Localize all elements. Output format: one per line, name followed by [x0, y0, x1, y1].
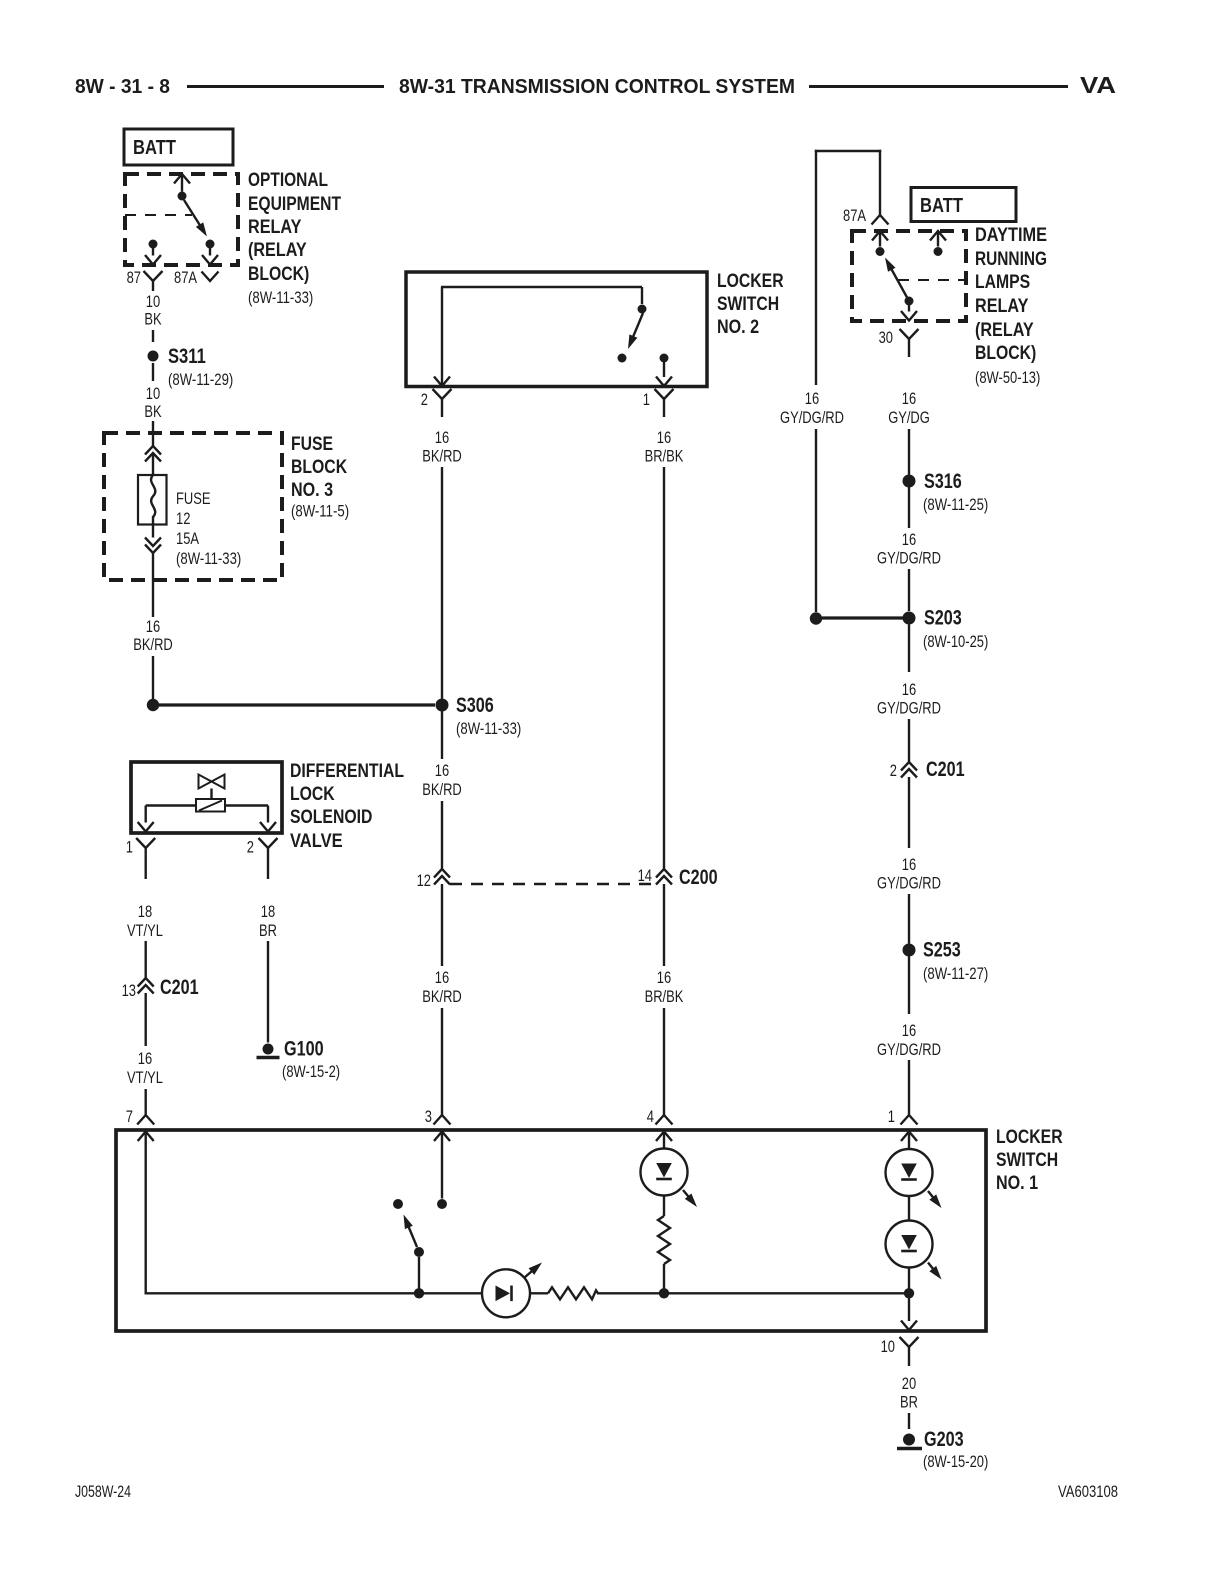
wire pin1 to C201 pin13	[144, 941, 146, 978]
svg-text:12: 12	[176, 509, 190, 528]
locker1 pin4 internal arrow	[656, 1132, 672, 1149]
wire to locker1 pin4	[663, 1008, 665, 1115]
svg-text:(8W-15-20): (8W-15-20)	[923, 1452, 988, 1471]
header rule left	[187, 85, 384, 88]
svg-text:C201: C201	[926, 758, 965, 781]
locker1 bus end junction dot	[904, 1288, 914, 1298]
fuse F12 value label	[176, 489, 241, 568]
daytime running lamps relay dashed outline	[852, 231, 966, 321]
solenoid pin1 female connector	[136, 838, 155, 879]
wire label 16 BK/RD (below S306)	[422, 761, 462, 799]
header page number	[75, 76, 170, 98]
pin label 10	[881, 1337, 895, 1356]
solenoid internal wire left	[138, 806, 196, 832]
svg-text:BR: BR	[259, 921, 277, 940]
svg-text:16: 16	[902, 389, 916, 408]
pin label 87A (DRL relay)	[843, 206, 867, 225]
wire LED2 to LED3	[908, 1196, 910, 1221]
DRL relay name label	[975, 225, 1047, 387]
relay K1 pin 87 stem	[152, 248, 154, 256]
locker2 open contact dot	[618, 354, 627, 363]
svg-text:16: 16	[435, 968, 449, 987]
pin 87 female connector	[144, 271, 163, 281]
relay K1 coil divider (dashed)	[125, 214, 192, 216]
DRL relay pin 30 stem	[901, 305, 917, 321]
svg-text:BATT: BATT	[133, 137, 176, 159]
svg-text:(8W-11-27): (8W-11-27)	[923, 964, 988, 983]
svg-text:30: 30	[879, 328, 893, 347]
splice S311	[148, 351, 159, 362]
wire below S203	[908, 625, 910, 673]
svg-text:10: 10	[146, 292, 160, 311]
wire to C200 pin12	[441, 801, 443, 869]
svg-text:87: 87	[127, 268, 141, 287]
pin label 13	[122, 981, 136, 1000]
relay K1 contact 87A dot	[206, 240, 215, 249]
illumination lamp diode symbol	[496, 1286, 512, 1302]
svg-text:NO. 1: NO. 1	[996, 1173, 1038, 1194]
pin label 3	[425, 1107, 432, 1126]
locker2 switch arm	[628, 313, 643, 349]
locker1 indicator LED 3 circle	[886, 1221, 933, 1268]
solenoid valve name label	[290, 761, 404, 852]
wire to C201 pin2	[908, 719, 910, 762]
svg-text:2: 2	[890, 761, 897, 780]
svg-text:S311: S311	[168, 345, 206, 368]
svg-text:BLOCK): BLOCK)	[975, 343, 1036, 364]
svg-text:S306: S306	[456, 694, 494, 717]
svg-text:18: 18	[138, 902, 152, 921]
indicator LED 1 diode symbol	[656, 1163, 672, 1179]
svg-text:S203: S203	[924, 607, 962, 630]
locker2 pin1 stem	[656, 362, 672, 386]
DRL relay switch arm	[885, 258, 909, 302]
svg-text:BR/BK: BR/BK	[645, 987, 684, 1006]
locker1 switch pivot junction dot	[414, 1288, 424, 1298]
svg-text:J058W-24: J058W-24	[75, 1482, 131, 1501]
relay K1 name label	[248, 170, 341, 307]
svg-text:14: 14	[638, 866, 652, 885]
svg-text:16: 16	[657, 968, 671, 987]
indicator LED 1 light arrow	[683, 1190, 697, 1207]
svg-text:(8W-11-25): (8W-11-25)	[923, 495, 988, 514]
indicator LED 2 light arrow	[928, 1191, 942, 1208]
locker1 pin4 junction dot	[659, 1288, 669, 1298]
svg-text:OPTIONAL: OPTIONAL	[248, 170, 328, 191]
S316 label	[923, 470, 988, 514]
svg-text:10: 10	[146, 384, 160, 403]
indicator LED 3 light arrow	[928, 1263, 942, 1280]
wire LED3 to bus	[908, 1268, 910, 1291]
wire 87A feed lower segment	[815, 429, 817, 612]
svg-text:GY/DG/RD: GY/DG/RD	[877, 699, 941, 718]
locker switch no.1 name label	[996, 1127, 1063, 1194]
svg-text:LAMPS: LAMPS	[975, 272, 1030, 293]
S253 label	[923, 939, 988, 984]
pin label 30	[879, 328, 893, 347]
svg-text:(8W-11-33): (8W-11-33)	[456, 719, 521, 738]
wire into fuse block	[152, 421, 154, 446]
junction dot left of S306	[147, 699, 159, 711]
wire link S203 to junction	[822, 616, 903, 619]
svg-text:13: 13	[122, 981, 136, 1000]
wire label 16 VT/YL	[127, 1049, 163, 1087]
connector C201 pin 13 chevrons	[138, 978, 154, 994]
wire label 16 BK/RD (below C200)	[422, 968, 462, 1006]
svg-text:(8W-11-33): (8W-11-33)	[248, 288, 313, 307]
svg-text:RELAY: RELAY	[975, 296, 1029, 317]
svg-text:4: 4	[647, 1107, 654, 1126]
svg-text:GY/DG/RD: GY/DG/RD	[877, 874, 941, 893]
svg-text:LOCKER: LOCKER	[996, 1127, 1063, 1148]
svg-text:BATT: BATT	[920, 195, 963, 217]
svg-text:16: 16	[657, 428, 671, 447]
wire to locker1 pin3	[441, 1008, 443, 1115]
solenoid internal wire right	[225, 806, 276, 832]
svg-text:BR: BR	[900, 1393, 918, 1412]
pin label 2 (solenoid)	[247, 838, 254, 857]
svg-text:SWITCH: SWITCH	[717, 294, 779, 315]
G203 label	[923, 1428, 988, 1471]
locker1 pin1 internal arrow	[901, 1132, 917, 1150]
solenoid valve bowtie symbol	[199, 775, 225, 789]
DRL relay pin 87A arrow	[872, 231, 888, 247]
svg-text:18: 18	[261, 902, 275, 921]
wire LED1 to resistor	[663, 1196, 665, 1217]
wire label 10 BK	[144, 292, 162, 329]
wire segment below S311	[152, 363, 154, 381]
relay K1 pin 87A arrow	[202, 255, 218, 265]
svg-text:20: 20	[902, 1374, 916, 1393]
wire label 16 GY/DG/RD (feed)	[780, 389, 844, 427]
svg-text:(RELAY: (RELAY	[248, 240, 307, 261]
svg-text:VT/YL: VT/YL	[127, 921, 163, 940]
wire label 16 GY/DG/RD (below S253)	[877, 1021, 941, 1059]
svg-text:16: 16	[146, 617, 160, 636]
BATT feed box (right)	[911, 188, 1016, 222]
locker1 series resistor vertical	[658, 1216, 670, 1264]
splice S253	[903, 944, 916, 957]
svg-text:SWITCH: SWITCH	[996, 1150, 1058, 1171]
svg-text:12: 12	[417, 871, 431, 890]
wire label 16 GY/DG/RD (below S316)	[877, 530, 941, 568]
wire below S253	[908, 956, 910, 1014]
svg-text:16: 16	[902, 855, 916, 874]
svg-text:8W-31 TRANSMISSION CONTROL SYS: 8W-31 TRANSMISSION CONTROL SYSTEM	[399, 76, 795, 98]
fuse F12 body	[138, 475, 167, 525]
wire label 20 BR	[900, 1374, 918, 1412]
C200 label	[679, 866, 718, 889]
DRL relay BATT pin arrow	[930, 231, 946, 247]
svg-text:(8W-15-2): (8W-15-2)	[282, 1062, 340, 1081]
svg-text:NO. 2: NO. 2	[717, 317, 759, 338]
fuse block exit connector chevrons	[145, 538, 161, 554]
locker1 pin10 female connector	[900, 1337, 919, 1366]
svg-text:(8W-11-33): (8W-11-33)	[176, 549, 241, 568]
svg-text:FUSE: FUSE	[291, 434, 333, 455]
svg-text:VA: VA	[1080, 72, 1116, 98]
svg-text:2: 2	[247, 838, 254, 857]
fuse block no.3 dashed outline	[104, 433, 282, 580]
header VA	[1080, 72, 1116, 98]
svg-text:VA603108: VA603108	[1058, 1482, 1118, 1501]
locker1 pin4 male connector	[656, 1115, 673, 1125]
svg-text:(RELAY: (RELAY	[975, 320, 1034, 341]
pin 87A open connector	[202, 272, 219, 282]
G100 label	[282, 1038, 340, 1082]
wire below exit chevrons	[152, 553, 154, 617]
wire label 16 BR/BK (pin1)	[645, 428, 684, 466]
locker1 pin7 male connector	[137, 1115, 154, 1125]
wire label 16 BK/RD (pin2)	[422, 428, 462, 466]
svg-text:RUNNING: RUNNING	[975, 249, 1047, 270]
wire 87A feed vertical (long left)	[815, 150, 817, 385]
svg-text:VALVE: VALVE	[290, 831, 343, 852]
wire pin30 to S316	[908, 429, 910, 475]
svg-text:EQUIPMENT: EQUIPMENT	[248, 194, 341, 215]
header title	[399, 76, 795, 98]
S311 label	[168, 345, 233, 389]
svg-text:G100: G100	[284, 1038, 324, 1061]
S203 label	[923, 607, 988, 652]
locker switch no.2 outline	[406, 272, 707, 387]
locker switch no.1 outline	[116, 1130, 986, 1331]
wire to locker1 pin1	[908, 1060, 910, 1115]
svg-text:2: 2	[421, 390, 428, 409]
pin label 87	[127, 268, 141, 287]
svg-text:7: 7	[126, 1107, 133, 1126]
svg-text:1: 1	[888, 1107, 895, 1126]
wire to G203	[908, 1413, 910, 1429]
svg-text:16: 16	[138, 1049, 152, 1068]
wire to S203	[908, 569, 910, 611]
splice S203	[903, 612, 916, 625]
wire to junction	[152, 656, 154, 699]
ground G100 bar	[257, 1056, 280, 1060]
relay K1 common contact dot	[178, 192, 187, 201]
svg-text:16: 16	[902, 530, 916, 549]
wire below S306	[441, 711, 443, 759]
locker1 switch pivot dot	[414, 1247, 424, 1257]
wire junction to S306	[159, 703, 435, 706]
locker1 switch contact dot	[393, 1199, 403, 1209]
svg-text:DIFFERENTIAL: DIFFERENTIAL	[290, 761, 404, 782]
illumination lamp light arrow	[525, 1263, 543, 1278]
wire label 16 GY/DG (pin30)	[888, 389, 930, 427]
wire label 10 BK (2)	[144, 384, 162, 421]
splice S306	[436, 699, 449, 712]
pin label 7	[126, 1107, 133, 1126]
wire label 16 GY/DG/RD (below S203)	[877, 680, 941, 718]
svg-text:(8W-11-5): (8W-11-5)	[291, 502, 349, 521]
S306 label	[456, 694, 521, 738]
DRL relay common dot	[905, 297, 914, 306]
C201 label (left)	[160, 976, 199, 999]
DRL relay coil divider (dashed)	[898, 279, 966, 281]
locker1 pin7 internal arrow	[138, 1132, 154, 1295]
wire label 16 BK/RD (left col)	[133, 617, 173, 654]
relay K1 pin 30 arrow to BATT	[174, 174, 190, 192]
DRL relay pin 87A male connector	[872, 215, 889, 225]
wire below C201 pin13	[144, 993, 146, 1046]
svg-text:GY/DG/RD: GY/DG/RD	[877, 549, 941, 568]
pin label 14	[638, 866, 652, 885]
locker2 internal wire pin2 up and across	[434, 287, 642, 386]
wire fuse to exit chevrons	[152, 525, 154, 538]
footer sheet code	[75, 1482, 131, 1501]
fuse block entry connector chevrons	[145, 446, 161, 462]
svg-text:(8W-50-13): (8W-50-13)	[975, 368, 1040, 387]
wire resistor to bus	[663, 1264, 665, 1293]
BATT feed box (left)	[124, 129, 233, 165]
locker1 bottom bus wire	[146, 1292, 905, 1294]
wire below C200 pin14	[663, 884, 665, 966]
svg-text:NO. 3: NO. 3	[291, 480, 333, 501]
svg-text:C200: C200	[679, 866, 718, 889]
relay K1 pin 87A stem	[209, 248, 211, 256]
pin label 1 (solenoid)	[126, 838, 133, 857]
DRL relay pin 30 female connector	[900, 329, 919, 357]
wire pin2 to G100	[267, 941, 269, 1043]
svg-text:16: 16	[435, 761, 449, 780]
wire 87A feed horizontal	[815, 150, 881, 152]
svg-text:G203: G203	[924, 1428, 964, 1451]
DRL relay BATT contact dot	[934, 247, 943, 256]
pin label 4	[647, 1107, 654, 1126]
BATT label (left)	[133, 137, 176, 159]
svg-text:BK/RD: BK/RD	[133, 635, 173, 654]
DRL relay 87A contact dot	[876, 247, 885, 256]
differential lock solenoid valve outline	[131, 762, 282, 833]
wire segment above S311	[152, 330, 154, 342]
solenoid pin2 female connector	[259, 838, 278, 879]
wire chevron to fuse	[152, 453, 154, 475]
locker1 pin3 male connector	[434, 1115, 451, 1125]
indicator LED 2 diode symbol	[901, 1164, 917, 1180]
locker1 pin10 wire to bottom edge	[901, 1293, 917, 1330]
svg-text:(8W-11-29): (8W-11-29)	[168, 370, 233, 389]
svg-text:87A: 87A	[174, 268, 198, 287]
header rule right	[809, 85, 1068, 88]
svg-text:8W - 31 - 8: 8W - 31 - 8	[75, 76, 170, 98]
svg-text:BLOCK): BLOCK)	[248, 264, 309, 285]
svg-text:BK: BK	[144, 310, 162, 329]
svg-text:C201: C201	[160, 976, 199, 999]
svg-text:GY/DG/RD: GY/DG/RD	[877, 1040, 941, 1059]
svg-text:BK/RD: BK/RD	[422, 780, 462, 799]
C201 label (right)	[926, 758, 965, 781]
svg-text:DAYTIME: DAYTIME	[975, 225, 1047, 246]
optional equipment relay K1 dashed outline	[125, 174, 238, 265]
locker1 indicator LED 2 circle	[886, 1149, 933, 1196]
wire below S316	[908, 487, 910, 528]
footer drawing number	[1058, 1482, 1118, 1501]
wire pin2 to S306	[441, 467, 443, 699]
svg-text:SOLENOID: SOLENOID	[290, 807, 372, 828]
pin label 1 (locker1)	[888, 1107, 895, 1126]
locker1 pin3 contact dot	[437, 1199, 447, 1209]
svg-text:BK: BK	[144, 402, 162, 421]
pin label 12	[417, 871, 431, 890]
C200 dashed connector line	[450, 883, 656, 885]
locker switch no.2 name label	[717, 271, 784, 338]
wire pin87 stem	[152, 281, 154, 291]
locker1 illumination lamp circle	[482, 1269, 530, 1317]
svg-text:10: 10	[881, 1337, 895, 1356]
svg-text:16: 16	[902, 680, 916, 699]
wire 87A feed right vertical	[879, 150, 881, 215]
svg-text:GY/DG: GY/DG	[888, 408, 930, 427]
svg-text:LOCKER: LOCKER	[717, 271, 784, 292]
wire label 16 BR/BK (below C200)	[645, 968, 684, 1006]
wire label 18 BR	[259, 902, 277, 940]
svg-text:VT/YL: VT/YL	[127, 1068, 163, 1087]
wire pin1 to C200	[663, 467, 665, 869]
svg-text:16: 16	[435, 428, 449, 447]
svg-text:16: 16	[805, 389, 819, 408]
svg-text:16: 16	[902, 1021, 916, 1040]
svg-text:3: 3	[425, 1107, 432, 1126]
solenoid valve stem	[210, 789, 212, 800]
pin label 1 (locker2)	[643, 390, 650, 409]
locker2 contact dot pin1	[660, 354, 669, 363]
locker2 pin2 female connector	[433, 389, 452, 417]
svg-text:1: 1	[643, 390, 650, 409]
fuse F12 element	[151, 475, 155, 525]
locker1 bus resistor	[548, 1287, 598, 1299]
ground G100 dot	[263, 1044, 274, 1055]
locker2 pin1 female connector	[655, 389, 674, 417]
locker2 switch common dot	[638, 305, 647, 314]
solenoid actuator box	[196, 799, 225, 812]
pin label 87A	[174, 268, 198, 287]
relay K1 switch arm	[184, 200, 207, 237]
wire label 16 GY/DG/RD (below C201)	[877, 855, 941, 893]
svg-text:S316: S316	[924, 470, 962, 493]
connector C200 pin 14 chevrons	[656, 869, 672, 885]
locker1 switch arm	[404, 1215, 418, 1248]
pin label 2 (C201)	[890, 761, 897, 780]
svg-text:FUSE: FUSE	[176, 489, 211, 508]
svg-text:BR/BK: BR/BK	[645, 447, 684, 466]
wire below C200 pin12	[441, 884, 443, 966]
svg-text:BK/RD: BK/RD	[422, 447, 462, 466]
ground G203 dot	[903, 1434, 915, 1446]
locker1 indicator LED 1 circle	[641, 1149, 688, 1196]
svg-text:1: 1	[126, 838, 133, 857]
locker1 pin1 male connector	[901, 1115, 918, 1125]
svg-text:BK/RD: BK/RD	[422, 987, 462, 1006]
svg-text:15A: 15A	[176, 529, 200, 548]
wire to locker1 pin7	[144, 1089, 146, 1115]
svg-text:BLOCK: BLOCK	[291, 457, 347, 478]
locker1 switch pivot stem	[418, 1257, 420, 1293]
relay K1 contact 87 dot	[149, 240, 158, 249]
connector C200 pin 12 chevrons	[434, 869, 450, 885]
svg-text:87A: 87A	[843, 206, 867, 225]
BATT label (right)	[920, 195, 963, 217]
wire below C201 pin2	[908, 777, 910, 848]
splice S316	[903, 475, 916, 488]
svg-text:(8W-10-25): (8W-10-25)	[923, 632, 988, 651]
svg-text:S253: S253	[923, 939, 961, 962]
ground G203 bar	[897, 1447, 922, 1451]
junction dot left of S203	[810, 612, 822, 624]
locker1 pin3 internal arrow	[434, 1132, 450, 1199]
indicator LED 3 diode symbol	[901, 1235, 917, 1251]
wire label 18 VT/YL	[127, 902, 163, 940]
relay K1 pin 87 arrow	[145, 255, 161, 265]
